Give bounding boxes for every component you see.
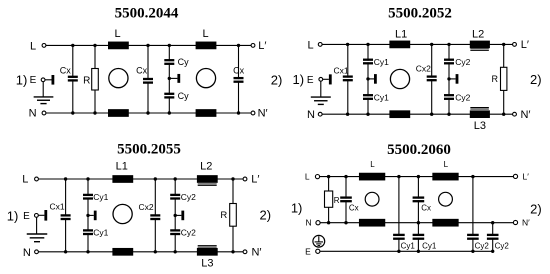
svg-text:1): 1): [7, 208, 19, 223]
svg-text:5500.2055: 5500.2055: [117, 142, 181, 158]
svg-text:Cx: Cx: [421, 204, 431, 213]
svg-text:Cx: Cx: [60, 65, 71, 75]
svg-text:Cy2: Cy2: [455, 92, 470, 102]
svg-text:L3: L3: [474, 120, 486, 132]
svg-text:Cy1: Cy1: [374, 57, 389, 67]
svg-text:E: E: [305, 247, 311, 257]
svg-text:L: L: [202, 28, 208, 40]
svg-text:Cy1: Cy1: [422, 241, 437, 250]
svg-text:R: R: [220, 210, 227, 221]
svg-text:5500.2052: 5500.2052: [388, 5, 452, 21]
svg-text:E: E: [30, 75, 37, 86]
svg-text:Cx2: Cx2: [138, 202, 153, 212]
svg-text:Cx: Cx: [136, 66, 147, 76]
svg-text:2): 2): [530, 72, 542, 87]
svg-text:N′: N′: [258, 108, 268, 120]
svg-text:5500.2044: 5500.2044: [115, 5, 179, 21]
svg-text:Cy: Cy: [178, 91, 189, 101]
svg-text:L′: L′: [523, 171, 530, 181]
svg-text:5500.2060: 5500.2060: [387, 142, 451, 158]
svg-text:Cx1: Cx1: [49, 201, 64, 211]
svg-text:L: L: [370, 160, 375, 169]
svg-text:1): 1): [16, 72, 28, 87]
svg-text:Cx1: Cx1: [333, 65, 348, 75]
svg-text:Cy1: Cy1: [401, 241, 416, 250]
svg-text:Cx: Cx: [349, 204, 359, 213]
svg-text:N′: N′: [522, 217, 530, 227]
svg-text:L1: L1: [395, 29, 407, 41]
svg-text:E: E: [307, 75, 314, 86]
svg-text:Cy1: Cy1: [93, 228, 108, 238]
svg-text:Cy2: Cy2: [495, 241, 510, 250]
svg-text:2): 2): [271, 72, 283, 87]
svg-text:Cx: Cx: [233, 65, 244, 75]
svg-text:2): 2): [530, 201, 542, 216]
svg-text:N: N: [29, 108, 37, 120]
svg-text:1): 1): [291, 200, 303, 215]
svg-text:N: N: [23, 247, 31, 259]
svg-text:Cy2: Cy2: [455, 57, 470, 67]
svg-text:N′: N′: [520, 109, 530, 121]
svg-text:1): 1): [293, 72, 305, 87]
svg-text:L1: L1: [116, 161, 128, 173]
svg-text:L′: L′: [258, 40, 266, 52]
svg-text:Cy2: Cy2: [181, 228, 196, 238]
svg-text:Cy1: Cy1: [374, 92, 389, 102]
svg-text:L: L: [114, 28, 120, 40]
svg-text:L: L: [305, 171, 310, 181]
svg-text:L: L: [30, 40, 36, 52]
svg-text:N′: N′: [251, 246, 261, 258]
svg-text:L′: L′: [521, 39, 529, 51]
svg-text:Cy: Cy: [178, 57, 189, 67]
svg-text:R: R: [334, 196, 340, 205]
svg-text:L2: L2: [472, 29, 484, 41]
svg-text:L: L: [22, 174, 28, 186]
svg-text:Cy1: Cy1: [93, 192, 108, 202]
svg-text:2): 2): [260, 208, 272, 223]
svg-text:R: R: [492, 74, 499, 84]
svg-text:L: L: [444, 160, 449, 169]
svg-text:L′: L′: [251, 173, 259, 185]
svg-text:L3: L3: [201, 258, 213, 270]
svg-text:R: R: [83, 76, 90, 87]
svg-text:N: N: [307, 109, 315, 121]
svg-text:N: N: [306, 218, 312, 228]
svg-text:L2: L2: [200, 161, 212, 173]
svg-text:L: L: [307, 39, 313, 51]
svg-text:Cx2: Cx2: [416, 63, 431, 73]
svg-text:Cy2: Cy2: [475, 241, 490, 250]
svg-text:Cy2: Cy2: [181, 192, 196, 202]
svg-text:E: E: [23, 211, 30, 222]
